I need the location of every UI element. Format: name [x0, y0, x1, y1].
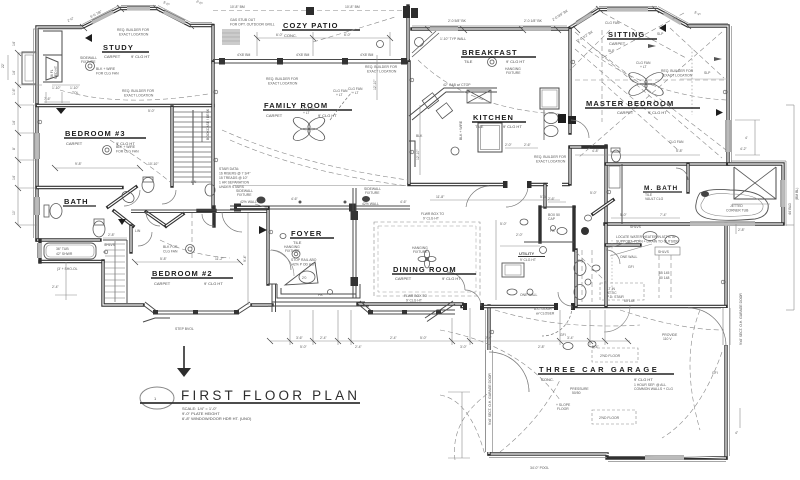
svg-text:14': 14': [12, 70, 16, 75]
svg-text:CAP: CAP: [548, 217, 556, 221]
svg-text:CARPET: CARPET: [154, 281, 171, 286]
svg-text:80 148: 80 148: [659, 276, 669, 280]
svg-text:2'-0": 2'-0": [505, 143, 513, 147]
svg-text:EXACT LOCATION: EXACT LOCATION: [268, 82, 298, 86]
svg-text:A.C. DOOR: A.C. DOOR: [534, 307, 552, 311]
svg-text:CARPET: CARPET: [266, 113, 283, 118]
svg-text:44' BLD: 44' BLD: [788, 202, 792, 215]
svg-text:2'-8": 2'-8": [738, 228, 746, 232]
svg-text:STAIR DATA:: STAIR DATA:: [219, 167, 239, 171]
svg-text:MASTER BEDROOM: MASTER BEDROOM: [586, 99, 674, 108]
svg-text:14': 14': [12, 120, 16, 125]
svg-text:SHLVS: SHLVS: [658, 250, 670, 254]
svg-text:2'-8": 2'-8": [108, 233, 116, 237]
svg-text:BOOKCASE / DESK: BOOKCASE / DESK: [206, 108, 210, 140]
svg-text:STUDY: STUDY: [103, 43, 134, 52]
svg-text:4'-2": 4'-2": [740, 147, 748, 151]
svg-text:FIXTURE: FIXTURE: [506, 71, 521, 75]
svg-text:4'X8' BM: 4'X8' BM: [296, 53, 310, 57]
svg-text:7'-6": 7'-6": [44, 97, 52, 101]
svg-text:5'-0": 5'-0": [148, 109, 156, 113]
svg-text:CLG FAN: CLG FAN: [163, 250, 178, 254]
svg-text:BLK + WIRE: BLK + WIRE: [96, 67, 116, 71]
svg-text:SHLVS: SHLVS: [104, 243, 116, 247]
svg-text:4'-6": 4'-6": [400, 200, 408, 204]
svg-text:CLG FAN: CLG FAN: [605, 21, 620, 25]
svg-text:CARPET: CARPET: [617, 110, 634, 115]
svg-text:REQ. BUILDER FOR: REQ. BUILDER FOR: [117, 28, 150, 32]
svg-text:BEDROOM #3: BEDROOM #3: [65, 129, 126, 138]
svg-text:9' CLG HT: 9' CLG HT: [406, 299, 422, 303]
svg-text:GFI: GFI: [560, 333, 566, 337]
svg-text:1'-6": 1'-6": [12, 87, 16, 95]
svg-text:(3' + SHO-OL: (3' + SHO-OL: [57, 267, 78, 271]
svg-text:+ LT: + LT: [336, 93, 343, 97]
svg-text:1'-10": 1'-10": [52, 86, 61, 90]
svg-text:4'X8' BM: 4'X8' BM: [360, 53, 374, 57]
svg-text:SLP: SLP: [608, 49, 615, 53]
svg-text:FOR CLG FAN: FOR CLG FAN: [96, 72, 119, 76]
svg-text:3'-0": 3'-0": [460, 345, 468, 349]
svg-text:5'-8": 5'-8": [676, 149, 684, 153]
svg-text:EXACT LOCATION: EXACT LOCATION: [124, 94, 154, 98]
svg-text:KITCHEN: KITCHEN: [473, 113, 514, 122]
svg-text:9' CLG HT: 9' CLG HT: [634, 377, 653, 382]
svg-text:BLK FOR: BLK FOR: [163, 245, 178, 249]
svg-text:5'-6": 5'-6": [540, 195, 548, 199]
svg-text:CONC.: CONC.: [541, 377, 554, 382]
svg-text:12'-10": 12'-10": [416, 149, 420, 160]
svg-text:EXACT LOCATION: EXACT LOCATION: [119, 33, 149, 37]
svg-text:5'-0": 5'-0": [420, 336, 428, 340]
svg-text:TILE: TILE: [293, 240, 302, 245]
svg-text:5'-8": 5'-8": [160, 257, 168, 261]
svg-text:REQ. BUILDER FOR: REQ. BUILDER FOR: [365, 65, 398, 69]
svg-text:+ LT: + LT: [352, 91, 359, 95]
svg-text:CORNER TUB: CORNER TUB: [726, 209, 749, 213]
svg-text:FIXTURE: FIXTURE: [285, 249, 300, 253]
svg-text:110 V: 110 V: [663, 337, 672, 341]
svg-text:FLOOR: FLOOR: [557, 407, 569, 411]
svg-text:MED HT: MED HT: [54, 66, 58, 79]
svg-text:w/ CLOSER: w/ CLOSER: [536, 312, 555, 316]
svg-text:UTILITY: UTILITY: [519, 251, 534, 256]
svg-text:DINING ROOM: DINING ROOM: [393, 265, 457, 274]
svg-text:ONE WALL: ONE WALL: [520, 293, 538, 297]
svg-text:(BM BL): (BM BL): [795, 188, 799, 200]
svg-text:FOR CLG FAN: FOR CLG FAN: [116, 150, 139, 154]
svg-text:34'-0" POOL: 34'-0" POOL: [530, 466, 549, 470]
svg-text:COMMON WALLS + CLG: COMMON WALLS + CLG: [634, 387, 673, 391]
svg-text:FAMILY ROOM: FAMILY ROOM: [264, 101, 328, 110]
svg-text:SHLVS: SHLVS: [630, 225, 642, 229]
svg-text:42% P OD HGT: 42% P OD HGT: [292, 263, 316, 267]
svg-text:42% WALL: 42% WALL: [240, 200, 257, 204]
svg-text:COZY PATIO: COZY PATIO: [283, 21, 339, 30]
svg-text:FLWR BOX TO: FLWR BOX TO: [421, 212, 444, 216]
svg-text:9' CLG HT: 9' CLG HT: [442, 276, 461, 281]
svg-text:BLK + WIRE: BLK + WIRE: [116, 145, 136, 149]
svg-text:LIN: LIN: [135, 229, 141, 233]
svg-text:11'-8": 11'-8": [436, 195, 445, 199]
svg-text:14': 14': [12, 175, 16, 180]
svg-text:+ LT: + LT: [303, 111, 310, 115]
svg-text:2'-0": 2'-0": [516, 233, 524, 237]
svg-text:STEP BVOL: STEP BVOL: [175, 327, 194, 331]
svg-text:4': 4': [745, 136, 748, 140]
svg-text:FIXTURE: FIXTURE: [81, 60, 96, 64]
svg-text:9' CLG HT: 9' CLG HT: [131, 54, 150, 59]
svg-text:LOCATE WATER HEATER IN ATTIC w: LOCATE WATER HEATER IN ATTIC w/: [616, 235, 676, 239]
svg-text:FLWR BOX TO: FLWR BOX TO: [404, 294, 427, 298]
svg-text:9' CLG HT: 9' CLG HT: [648, 110, 667, 115]
svg-text:TILE: TILE: [475, 124, 484, 129]
svg-text:42% WALL: 42% WALL: [362, 202, 379, 206]
svg-text:2'-6": 2'-6": [548, 197, 556, 201]
svg-text:11'-2": 11'-2": [215, 257, 224, 261]
svg-text:6'-0": 6'-0": [344, 33, 352, 37]
svg-text:65 145: 65 145: [659, 271, 669, 275]
svg-text:6'-0": 6'-0": [276, 33, 284, 37]
svg-text:2'0: 2'0: [302, 276, 307, 280]
svg-text:5'-0": 5'-0": [590, 191, 598, 195]
svg-text:BLK + WIRE: BLK + WIRE: [459, 120, 463, 140]
svg-text:2'-0 1/8" BK: 2'-0 1/8" BK: [524, 19, 543, 23]
svg-text:8': 8': [12, 147, 16, 150]
svg-text:9' CLG HT: 9' CLG HT: [506, 59, 525, 64]
svg-text:GAS STUB OUT: GAS STUB OUT: [230, 18, 255, 22]
svg-text:4'X8' BM: 4'X8' BM: [237, 53, 251, 57]
svg-text:9' CLG HT: 9' CLG HT: [503, 124, 522, 129]
svg-text:42" CAB w/ CTOP: 42" CAB w/ CTOP: [443, 83, 471, 87]
svg-text:3'-6": 3'-6": [296, 336, 304, 340]
svg-text:5'-0": 5'-0": [300, 345, 308, 349]
svg-text:JETTED: JETTED: [730, 204, 743, 208]
svg-text:SLP: SLP: [704, 71, 711, 75]
svg-text:9'x8' SECT. O.H. GARAGE DOOR: 9'x8' SECT. O.H. GARAGE DOOR: [488, 373, 492, 425]
svg-text:VAULT CLG: VAULT CLG: [645, 197, 664, 201]
svg-text:5'-0": 5'-0": [620, 213, 628, 217]
svg-text:STOP RAIL ABO: STOP RAIL ABO: [291, 258, 317, 262]
svg-text:EXACT LOCATION: EXACT LOCATION: [663, 74, 693, 78]
svg-text:ONE WALL: ONE WALL: [620, 255, 638, 259]
svg-text:THREE CAR GARAGE: THREE CAR GARAGE: [539, 365, 659, 374]
svg-text:10': 10': [12, 210, 16, 215]
svg-text:9' CLG HT: 9' CLG HT: [520, 258, 536, 262]
svg-text:GFI: GFI: [628, 265, 634, 269]
svg-text:REQ. BUILDER FOR: REQ. BUILDER FOR: [661, 69, 694, 73]
svg-text:M. BATH: M. BATH: [644, 185, 678, 192]
svg-text:LIN: LIN: [191, 180, 197, 184]
svg-text:FIRST FLOOR PLAN: FIRST FLOOR PLAN: [181, 388, 360, 403]
svg-text:9'-8": 9'-8": [75, 162, 83, 166]
svg-text:EXACT LOCATION: EXACT LOCATION: [536, 160, 566, 164]
svg-text:P.D. STAIR: P.D. STAIR: [607, 295, 624, 299]
svg-text:2'-4": 2'-4": [390, 336, 398, 340]
svg-text:6'-8" WINDOW/DOOR HDR HT. (UNO: 6'-8" WINDOW/DOOR HDR HT. (UNO): [182, 416, 252, 421]
svg-text:9' CLG HT: 9' CLG HT: [423, 217, 439, 221]
svg-text:10'-10": 10'-10": [148, 162, 159, 166]
svg-text:BATH: BATH: [64, 197, 89, 206]
svg-text:9'x8' SECT. O.H. GARAGE DOOR: 9'x8' SECT. O.H. GARAGE DOOR: [739, 293, 743, 345]
svg-text:42" SHWR: 42" SHWR: [56, 252, 73, 256]
svg-text:FIXTURE: FIXTURE: [413, 250, 428, 254]
svg-text:TILE: TILE: [464, 59, 473, 64]
svg-text:REQ. BUILDER FOR: REQ. BUILDER FOR: [266, 77, 299, 81]
svg-text:BEDROOM #2: BEDROOM #2: [152, 269, 213, 278]
svg-text:2'ND FLOOR: 2'ND FLOOR: [599, 416, 620, 420]
svg-text:PB: PB: [318, 293, 323, 297]
svg-text:2'-0 5/8" BK: 2'-0 5/8" BK: [448, 19, 467, 23]
svg-text:FOYER: FOYER: [291, 229, 322, 238]
svg-text:2'-4": 2'-4": [320, 336, 328, 340]
svg-text:2'-4": 2'-4": [485, 336, 493, 340]
svg-text:14': 14': [12, 41, 16, 46]
svg-text:4'-6": 4'-6": [291, 197, 299, 201]
svg-text:10'-8" BM: 10'-8" BM: [230, 5, 245, 9]
svg-text:2'-4": 2'-4": [355, 345, 363, 349]
svg-text:FOR OPT. OUTDOOR GRILL: FOR OPT. OUTDOOR GRILL: [230, 23, 275, 27]
svg-text:CARPET: CARPET: [609, 41, 626, 46]
svg-text:CARPET: CARPET: [66, 141, 83, 146]
svg-text:65 148: 65 148: [624, 299, 634, 303]
svg-text:5'-0": 5'-0": [500, 222, 508, 226]
svg-text:22': 22': [1, 63, 5, 68]
svg-text:REQ. BUILDER FOR: REQ. BUILDER FOR: [534, 155, 567, 159]
svg-text:SUPPORT. PLAN + DRAIN TO OUTSI: SUPPORT. PLAN + DRAIN TO OUTSIDE: [616, 240, 679, 244]
svg-text:1'-10": 1'-10": [70, 86, 79, 90]
svg-text:12'-10": 12'-10": [373, 79, 377, 90]
svg-text:SLP: SLP: [657, 32, 664, 36]
svg-text:1 HR SEPARATION: 1 HR SEPARATION: [219, 181, 250, 185]
svg-text:7'-4": 7'-4": [660, 213, 668, 217]
svg-text:CONC.: CONC.: [284, 33, 297, 38]
svg-text:9'-4": 9'-4": [243, 254, 247, 262]
svg-text:DN: DN: [578, 259, 583, 263]
svg-text:CARPET: CARPET: [395, 276, 412, 281]
svg-text:50/50: 50/50: [572, 391, 581, 395]
svg-text:9' CLG HT: 9' CLG HT: [204, 281, 223, 286]
svg-text:10'-8" BM: 10'-8" BM: [345, 5, 360, 9]
svg-text:2'ND FLOOR: 2'ND FLOOR: [600, 354, 621, 358]
svg-text:FIXTURE: FIXTURE: [365, 191, 380, 195]
svg-text:CLG FAN: CLG FAN: [669, 140, 684, 144]
svg-text:2'-6": 2'-6": [524, 143, 532, 147]
svg-text:15 TREADS @ 10": 15 TREADS @ 10": [219, 176, 249, 180]
svg-text:BLK: BLK: [416, 134, 423, 138]
svg-text:CARPET: CARPET: [104, 54, 121, 59]
svg-text:SITTING: SITTING: [608, 30, 645, 39]
svg-text:1'-10" TYP WALL: 1'-10" TYP WALL: [440, 37, 466, 41]
svg-text:EXACT LOCATION: EXACT LOCATION: [367, 70, 397, 74]
svg-text:2'-4": 2'-4": [52, 285, 60, 289]
svg-text:2'-8": 2'-8": [538, 345, 546, 349]
svg-text:16 RISERS @ 7 3/4": 16 RISERS @ 7 3/4": [219, 172, 251, 176]
svg-text:FIXTURE: FIXTURE: [237, 193, 252, 197]
svg-text:36" TUB: 36" TUB: [56, 247, 69, 251]
svg-text:+ LT: + LT: [640, 65, 647, 69]
svg-text:3'-4": 3'-4": [567, 336, 575, 340]
svg-text:REQ. BUILDER FOR: REQ. BUILDER FOR: [122, 89, 155, 93]
svg-text:BREAKFAST: BREAKFAST: [462, 48, 518, 57]
svg-text:4'-8": 4'-8": [592, 149, 600, 153]
